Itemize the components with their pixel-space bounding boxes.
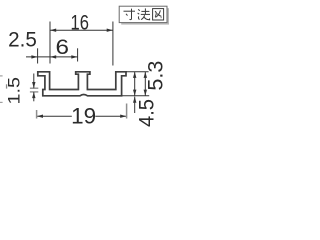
arrowhead 2.5 right-pointing: [31, 55, 37, 58]
title box shadow: [121, 8, 169, 24]
extension line 19 left: [36, 110, 38, 119]
extension tick 1.5 upper: [30, 87, 38, 89]
svg-text:2.5: 2.5: [8, 28, 37, 51]
dimension line 2.5 / 6: [26, 56, 78, 58]
svg-text:16: 16: [71, 10, 89, 34]
arrowhead 5.3 bottom down: [144, 90, 147, 96]
arrowhead 1.5 down: [32, 82, 35, 88]
extension line top right: [126, 71, 148, 73]
dimension line 19 left part: [37, 115, 72, 117]
dimension line 19 right part: [95, 115, 126, 117]
dimension line 16: [50, 29, 113, 31]
arrowhead 4.5 bottom down: [133, 90, 136, 96]
svg-text:6: 6: [56, 36, 70, 59]
arrowhead 16 right: [107, 29, 113, 32]
arrowhead 6 right-pointing: [71, 55, 77, 58]
arrowhead 5.3 top up: [144, 72, 147, 78]
dimension line 5.3: [144, 72, 146, 96]
kanji HOU of sunpouzu: [138, 8, 150, 19]
extension line base bottom right: [122, 95, 150, 97]
faint edge artifact upper: [0, 75, 3, 76]
kanji ZU of sunpouzu: [153, 9, 164, 20]
extension line 6 right: [77, 48, 79, 61]
extension line shared 16-left / 6-left: [49, 22, 51, 64]
arrowhead 19 left: [37, 115, 43, 118]
title box: [119, 6, 167, 22]
rail profile cross-section outline: [38, 72, 126, 96]
faint edge artifact lower: [0, 102, 3, 103]
extension line 2.5 left: [37, 48, 39, 63]
arrowhead 6 left-pointing: [50, 55, 56, 58]
arrowhead 4.5 below-line up: [133, 97, 136, 103]
arrowhead 16 left: [50, 29, 56, 32]
svg-text:5.3: 5.3: [145, 61, 168, 91]
svg-text:4.5: 4.5: [135, 99, 158, 127]
arrowhead 4.5 top up: [133, 72, 136, 78]
svg-text:19: 19: [71, 103, 96, 128]
extension line 16 right: [112, 22, 114, 66]
extension tick 1.5 lower: [30, 91, 38, 93]
dimension line 4.5: [134, 72, 136, 96]
dimension line 4.5 lower leader: [134, 97, 136, 113]
dimension line 1.5 upper tail: [33, 74, 35, 89]
arrowhead 19 right: [120, 115, 126, 118]
dimension line 1.5 lower tail: [33, 92, 35, 101]
arrowhead 1.5 up: [32, 92, 35, 98]
svg-text:1.5: 1.5: [5, 77, 24, 105]
extension line 19 right: [126, 104, 128, 119]
kanji SUN of sunpouzu: [124, 9, 136, 20]
faint stray mark: [6, 84, 7, 88]
